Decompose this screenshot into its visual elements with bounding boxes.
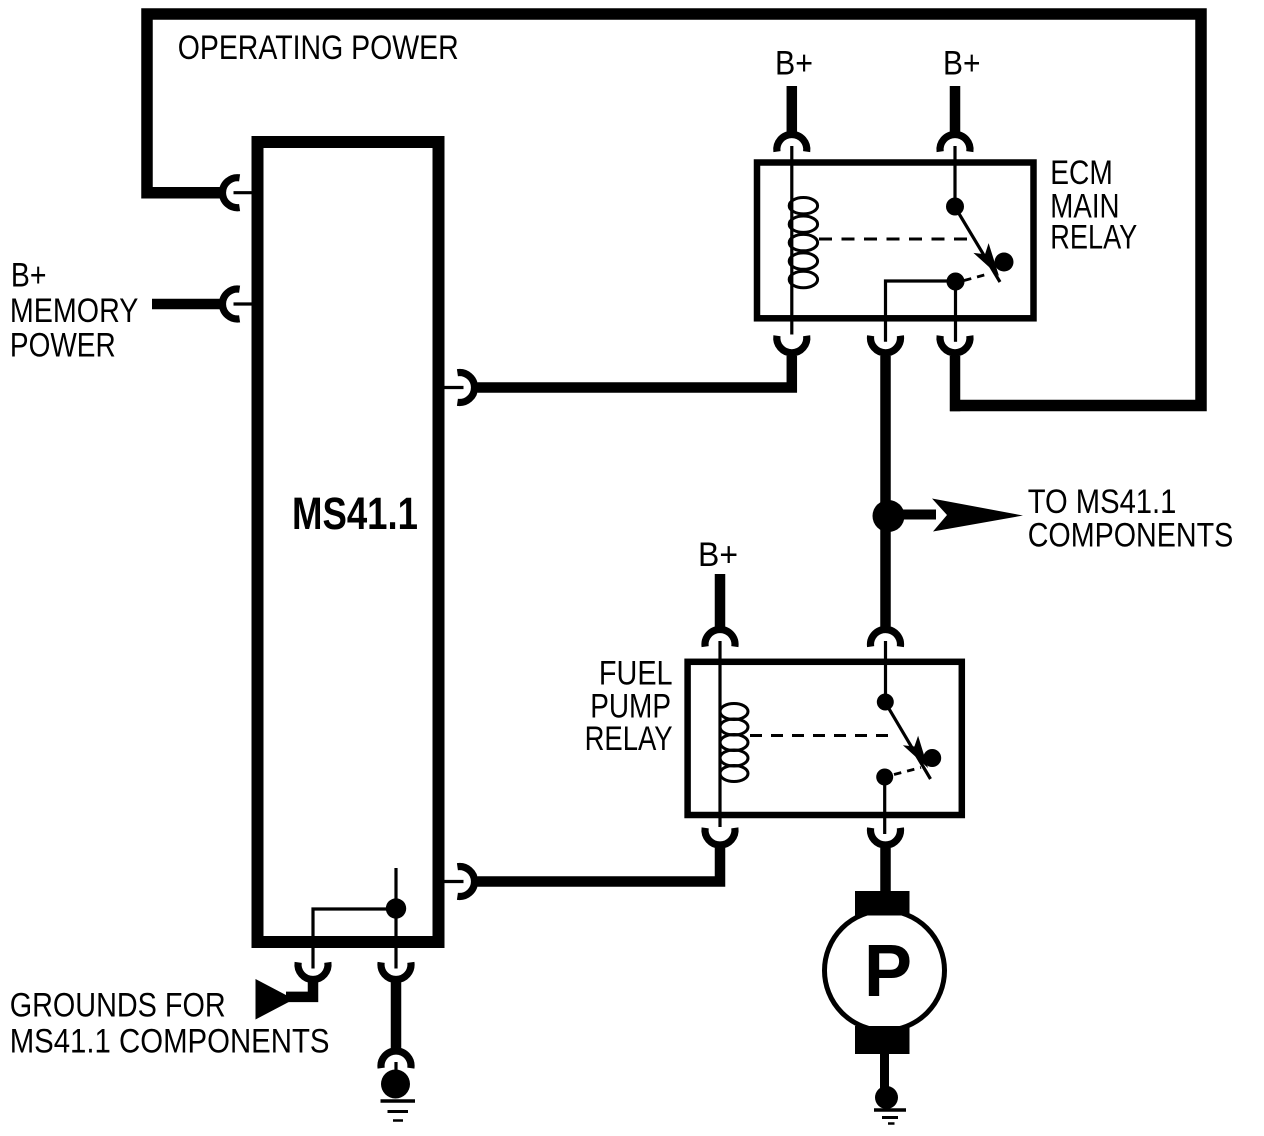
wire grounds-for-components xyxy=(286,978,313,997)
svg-text:MS41.1 COMPONENTS: MS41.1 COMPONENTS xyxy=(10,1023,330,1061)
svg-text:POWER: POWER xyxy=(10,327,116,365)
svg-text:COMPONENTS: COMPONENTS xyxy=(1028,517,1234,555)
connector MS41.1 ground left xyxy=(298,962,328,979)
junction node to MS41.1 components xyxy=(873,500,905,532)
ground stud MS41.1 xyxy=(381,1070,410,1099)
svg-text:B+: B+ xyxy=(11,257,47,295)
wire B+ to ECM relay coil xyxy=(787,86,798,132)
wire internal ground link xyxy=(313,909,396,947)
connector fuel relay bottom-right (87) xyxy=(871,828,901,845)
wire operating-power loop (top border) xyxy=(147,14,1201,406)
connector fuel pump relay top-left xyxy=(705,629,735,646)
fuel pump motor P xyxy=(825,911,945,1031)
connector ECM relay top-left xyxy=(777,134,807,151)
contact dot ECM relay 87 xyxy=(947,273,965,291)
svg-text:MS41.1: MS41.1 xyxy=(292,488,418,539)
pin MS41.1 output to fuel pump relay coil xyxy=(444,880,464,883)
fuel pump brush top xyxy=(855,891,910,916)
connector ECM relay bottom-left (85) xyxy=(777,336,807,353)
label B+ MEMORY POWER xyxy=(10,257,139,365)
wire arrow stem xyxy=(889,510,937,520)
dashed thrown-position fuel relay xyxy=(894,768,921,775)
pin chassis ground xyxy=(394,1062,397,1071)
wire MS41.1 to fuel pump relay coil xyxy=(478,848,721,882)
svg-text:ECM: ECM xyxy=(1050,154,1113,192)
pin ECM relay 87 down xyxy=(954,282,957,342)
ground symbol MS41.1 xyxy=(381,1101,416,1121)
pin fuel pump relay 30 xyxy=(884,641,887,694)
coil fuel pump relay xyxy=(720,641,748,827)
pin B+ memory power xyxy=(234,302,253,305)
arrowhead to MS41.1 components xyxy=(932,499,1023,532)
switch blade arrowhead fuel relay xyxy=(903,736,928,768)
pin ECM relay 30 xyxy=(953,146,956,198)
relay box ECM main relay xyxy=(757,163,1034,319)
contact dot fuel relay 87 xyxy=(876,769,893,786)
node internal ground junction MS41.1 xyxy=(394,868,397,969)
ECU MS41.1 box xyxy=(258,142,439,942)
svg-text:OPERATING POWER: OPERATING POWER xyxy=(178,29,459,67)
switch blade arrowhead ECM relay xyxy=(973,243,999,276)
connector ECM relay top-right xyxy=(940,134,970,151)
pin MS41.1 output to ECM relay coil xyxy=(444,386,464,389)
wire B+ to ECM relay switch xyxy=(950,86,961,132)
dashed thrown-position ECM relay xyxy=(964,274,988,281)
relay box fuel pump relay xyxy=(688,662,962,815)
svg-text:B+: B+ xyxy=(775,45,813,83)
svg-text:B+: B+ xyxy=(698,536,738,574)
contact dot fuel relay 87a xyxy=(923,749,941,767)
coil ECM relay xyxy=(789,146,817,335)
label ECM MAIN RELAY xyxy=(1050,154,1137,257)
wire ECM relay 87 to operating power loop xyxy=(950,356,961,411)
connector fuel pump relay top-right xyxy=(871,629,901,646)
connector chassis ground xyxy=(381,1051,411,1068)
pin operating power xyxy=(234,191,253,194)
ground symbol pump xyxy=(874,1110,906,1124)
svg-text:RELAY: RELAY xyxy=(1050,219,1137,257)
fuel pump brush bottom xyxy=(855,1026,910,1054)
wire B+ memory power stub xyxy=(152,299,220,310)
connector MS41.1 output lower xyxy=(457,867,474,897)
connector MS41.1 output upper xyxy=(457,373,474,403)
wire MS41.1 to chassis ground xyxy=(391,983,402,1049)
connector B+ memory power into MS41.1 xyxy=(222,289,239,319)
wire MS41.1 to ECM main relay coil xyxy=(478,356,792,388)
wire ECM relay 87 to components junction xyxy=(880,356,891,627)
switch blade fuel relay xyxy=(885,702,931,779)
ground stud pump xyxy=(875,1086,898,1109)
svg-text:B+: B+ xyxy=(943,45,981,83)
switch blade ECM relay xyxy=(955,207,1000,282)
wire ECM relay 87 to middle pin xyxy=(886,281,948,342)
wire B+ to fuel pump relay coil xyxy=(715,574,726,627)
connector ECM relay bottom-middle (87) xyxy=(871,336,901,353)
svg-text:MEMORY: MEMORY xyxy=(10,292,139,330)
svg-text:TO MS41.1: TO MS41.1 xyxy=(1028,483,1177,521)
contact dot ECM relay input (30) xyxy=(946,198,964,216)
connector fuel relay bottom-left (85) xyxy=(705,828,735,845)
contact dot ECM relay 87a xyxy=(995,253,1014,272)
pin MS41.1 ground left xyxy=(311,942,314,969)
svg-text:P: P xyxy=(864,929,912,1012)
connector MS41.1 ground right xyxy=(381,962,411,979)
label FUEL PUMP RELAY xyxy=(585,654,673,758)
connector ECM relay bottom-right (87) xyxy=(940,336,970,353)
svg-text:GROUNDS FOR: GROUNDS FOR xyxy=(10,987,226,1025)
wire fuel relay 87 to pump xyxy=(880,848,891,892)
arrowhead grounds for components xyxy=(256,979,295,1020)
label GROUNDS FOR MS41.1 COMPONENTS xyxy=(10,987,330,1061)
pin fuel relay 87 down xyxy=(883,777,886,834)
label TO MS41.1 COMPONENTS xyxy=(1028,483,1234,555)
contact dot fuel relay input (30) xyxy=(877,694,894,711)
connector operating power into MS41.1 xyxy=(222,178,239,208)
dashed actuation line ECM relay xyxy=(819,238,970,241)
svg-text:RELAY: RELAY xyxy=(585,720,673,758)
dashed actuation line fuel pump relay xyxy=(750,734,893,737)
wire pump to ground xyxy=(880,1054,889,1088)
